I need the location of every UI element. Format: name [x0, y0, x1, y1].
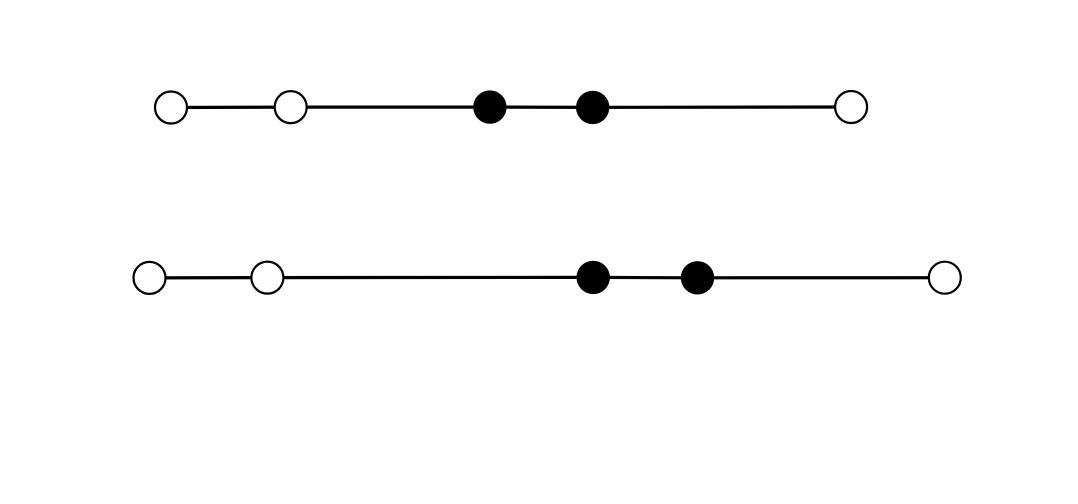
node T5 (open) [835, 91, 867, 123]
wire bottom segment B4-B5 [698, 276, 945, 279]
node T2 (open) [275, 91, 307, 123]
node B3 (filled) [577, 261, 610, 294]
node B5 (open) [929, 262, 961, 294]
wire bottom segment B3-B4 [593, 276, 697, 280]
wire bottom segment B2-B3 [267, 276, 593, 279]
wire top segment T1-T2 [171, 105, 291, 109]
node T4 (filled) [576, 91, 609, 124]
node T1 (open) [155, 92, 187, 124]
node T3 (filled) [473, 90, 506, 123]
wire top segment T3-T4 [490, 105, 593, 109]
node B1 (open) [134, 262, 166, 294]
wire top segment T4-T5 [593, 105, 851, 109]
node B4 (filled) [681, 261, 714, 294]
node B2 (open) [251, 262, 283, 294]
wire top segment T2-T3 [291, 105, 490, 108]
wire bottom segment B1-B2 [150, 276, 268, 279]
